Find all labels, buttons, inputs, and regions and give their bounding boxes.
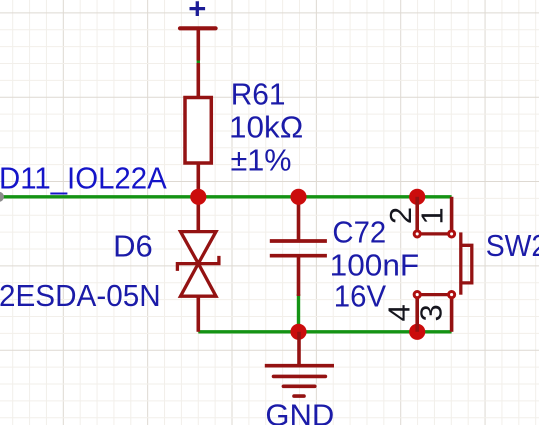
svg-text:10kΩ: 10kΩ bbox=[229, 109, 303, 144]
capacitor C72 bbox=[270, 197, 327, 296]
resistor R61 pin (bottom) bbox=[197, 163, 201, 197]
svg-text:R61: R61 bbox=[231, 76, 286, 111]
diode D6 (bidirectional TVS) bbox=[177, 197, 219, 332]
resistor R61 bbox=[185, 98, 211, 164]
power symbol + bbox=[180, 1, 216, 60]
junction (node C72 top) bbox=[290, 189, 306, 205]
svg-text:2ESDA-05N: 2ESDA-05N bbox=[0, 278, 161, 313]
svg-text:4: 4 bbox=[381, 304, 416, 321]
junction (node SW2 pin2) bbox=[409, 189, 425, 205]
svg-text:3: 3 bbox=[413, 304, 448, 321]
svg-text:1: 1 bbox=[415, 207, 450, 224]
svg-text:C72: C72 bbox=[332, 214, 386, 249]
svg-text:GND: GND bbox=[265, 398, 334, 425]
svg-text:2: 2 bbox=[383, 207, 418, 224]
svg-text:±1%: ±1% bbox=[231, 142, 292, 177]
junction (node C72/GND bottom) bbox=[290, 324, 306, 340]
svg-text:D6: D6 bbox=[113, 229, 153, 264]
wire (C72 bottom stub) bbox=[297, 294, 300, 332]
wire bottom rail bbox=[198, 330, 451, 333]
junction (node R61/D6 on top rail) bbox=[190, 189, 206, 205]
svg-text:16V: 16V bbox=[334, 278, 387, 313]
resistor R61 pin (top) bbox=[197, 63, 201, 99]
switch SW2 bbox=[414, 197, 472, 332]
wire net D11_IOL22A (top rail) bbox=[0, 195, 452, 198]
wire end marker (dangling, left edge) bbox=[0, 192, 4, 202]
ground GND bbox=[265, 332, 334, 396]
wire (power stub above R61) bbox=[197, 60, 200, 63]
svg-text:100nF: 100nF bbox=[330, 247, 420, 282]
svg-text:SW2: SW2 bbox=[486, 228, 539, 263]
junction (node SW2 pin4) bbox=[409, 324, 425, 340]
svg-text:D11_IOL22A: D11_IOL22A bbox=[0, 160, 167, 195]
